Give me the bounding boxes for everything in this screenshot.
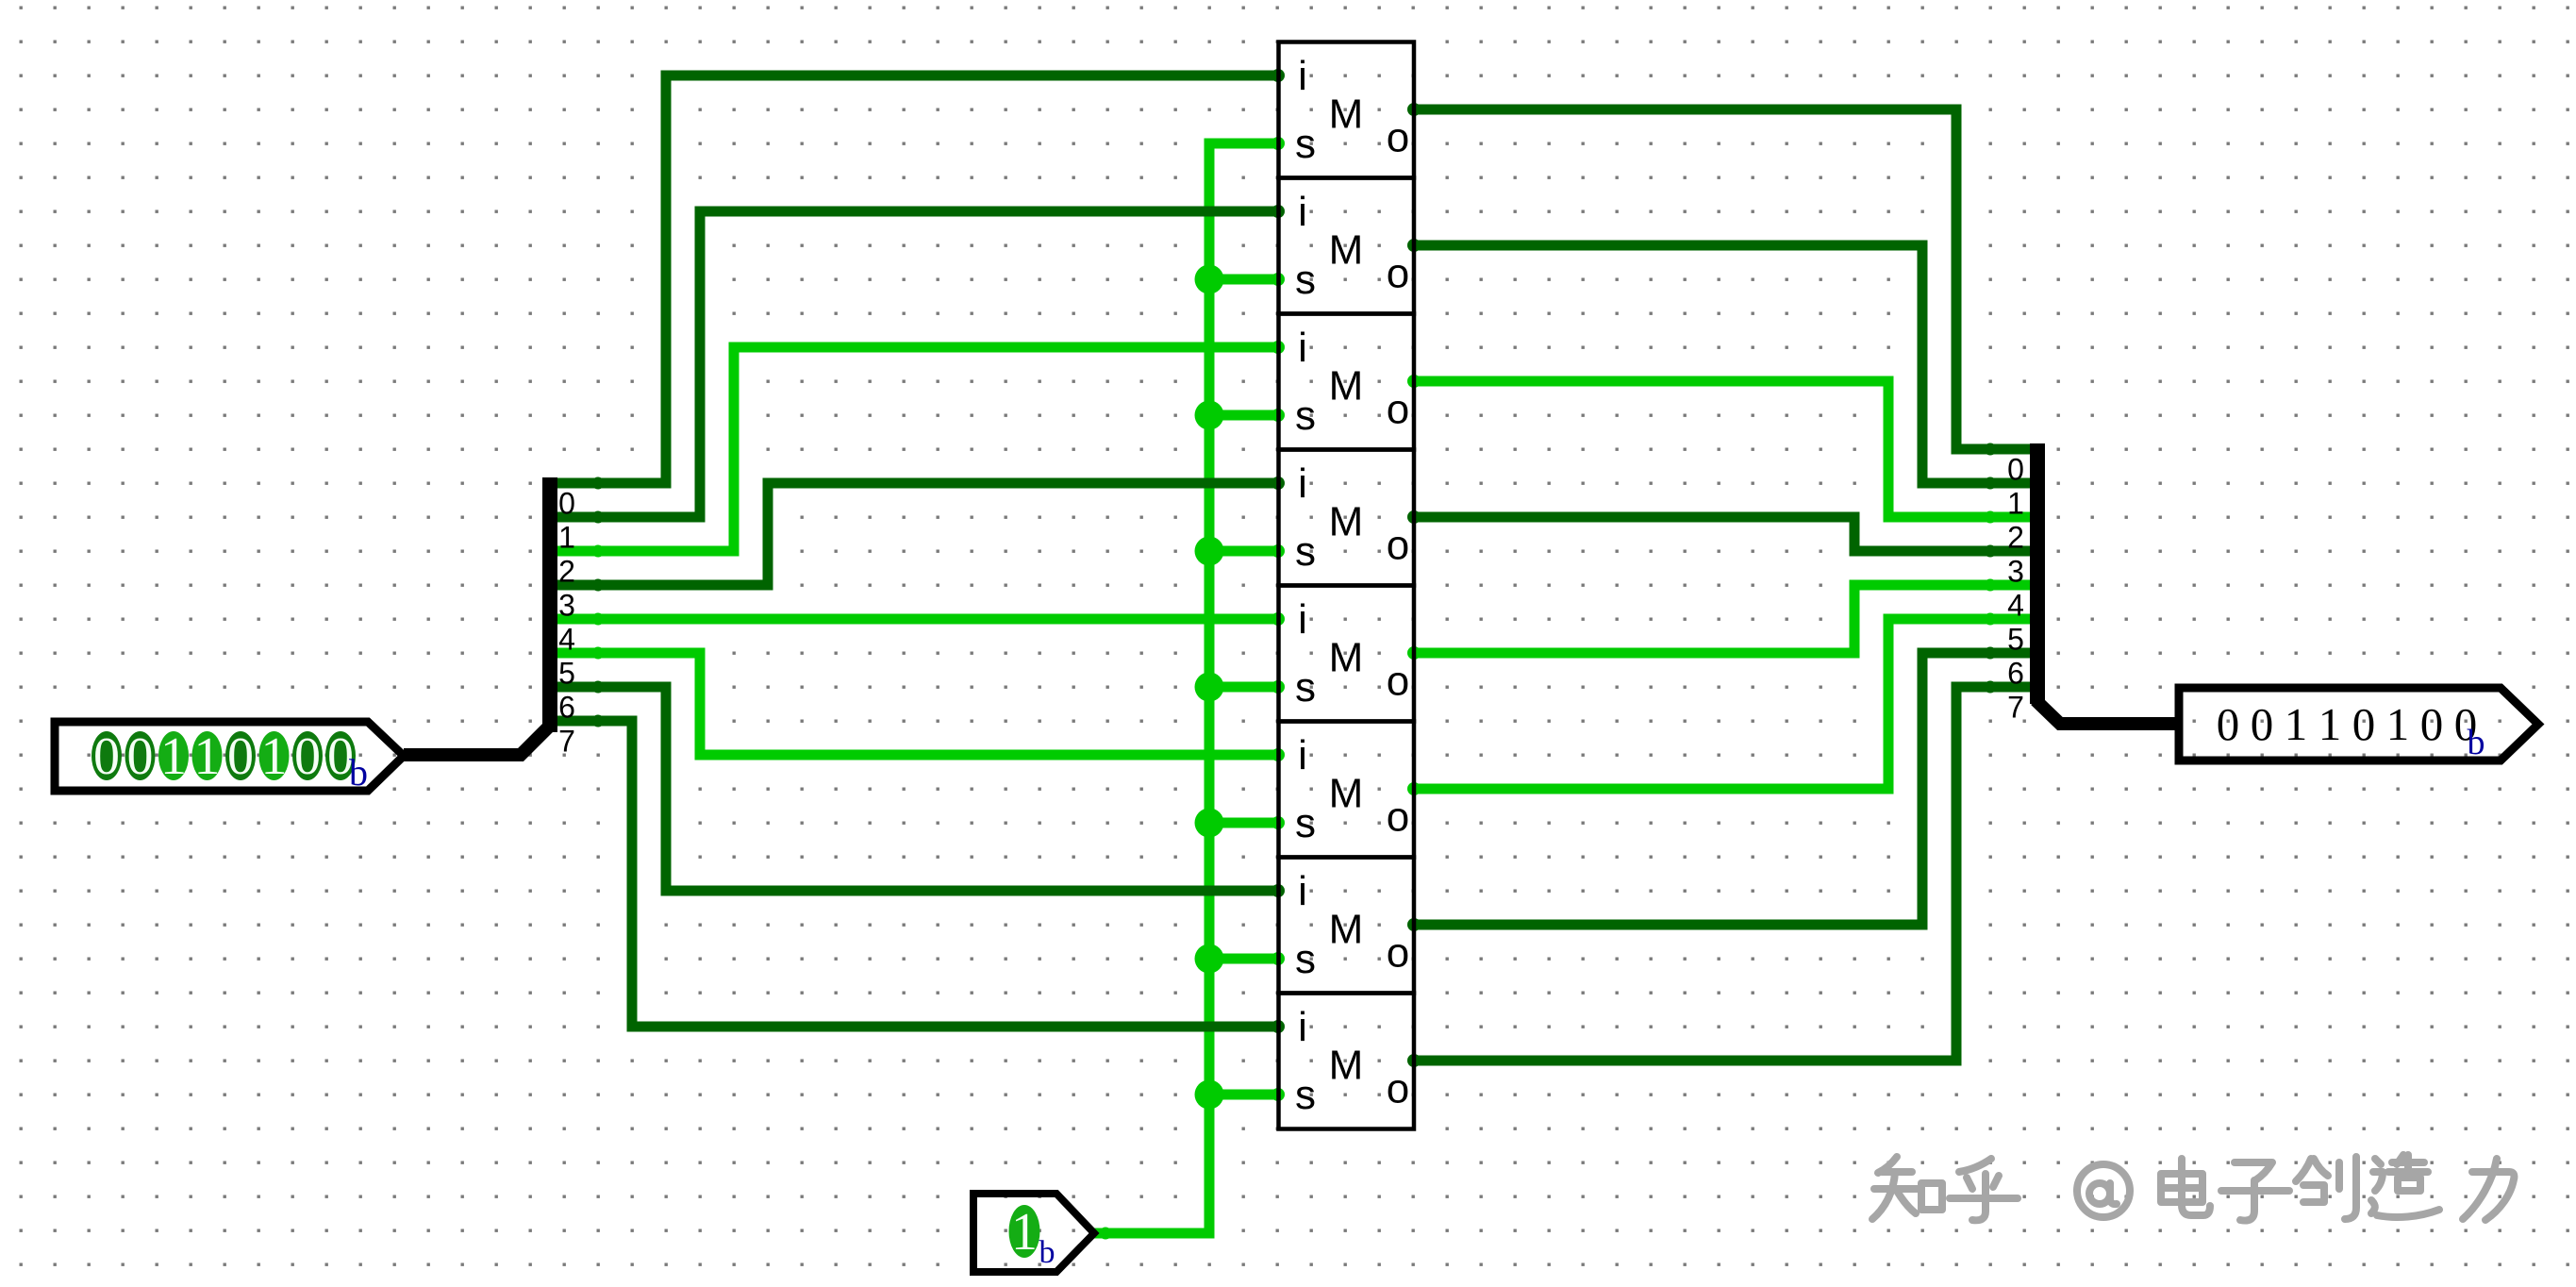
svg-text:s: s — [1295, 528, 1316, 575]
svg-text:3: 3 — [558, 589, 575, 623]
svg-text:s: s — [1295, 800, 1316, 846]
svg-text:1: 1 — [1011, 1203, 1038, 1262]
svg-text:6: 6 — [558, 691, 575, 725]
svg-text:o: o — [1387, 251, 1409, 297]
svg-text:o: o — [1387, 930, 1409, 977]
svg-text:s: s — [1295, 664, 1316, 710]
svg-text:M: M — [1329, 635, 1364, 681]
svg-text:o: o — [1387, 1066, 1409, 1112]
svg-text:s: s — [1295, 257, 1316, 303]
svg-text:M: M — [1329, 363, 1364, 409]
svg-text:0: 0 — [93, 727, 120, 786]
svg-text:1: 1 — [261, 727, 288, 786]
svg-text:i: i — [1298, 1004, 1307, 1050]
svg-text:M: M — [1329, 907, 1364, 953]
svg-text:0: 0 — [127, 727, 154, 786]
svg-text:1: 1 — [160, 727, 187, 786]
svg-text:i: i — [1298, 596, 1307, 643]
svg-text:b: b — [2468, 723, 2485, 762]
svg-text:b: b — [1039, 1235, 1055, 1270]
svg-text:b: b — [349, 751, 368, 794]
svg-text:o: o — [1387, 523, 1409, 569]
svg-text:o: o — [1387, 115, 1409, 161]
svg-text:0: 0 — [2352, 698, 2376, 750]
svg-text:4: 4 — [2007, 589, 2024, 623]
svg-text:1: 1 — [2386, 698, 2410, 750]
svg-text:5: 5 — [558, 657, 575, 691]
svg-text:1: 1 — [2318, 698, 2342, 750]
svg-text:3: 3 — [2007, 555, 2024, 589]
svg-text:7: 7 — [2007, 691, 2024, 725]
svg-text:s: s — [1295, 121, 1316, 167]
svg-text:M: M — [1329, 771, 1364, 817]
svg-text:0: 0 — [2007, 453, 2024, 487]
svg-text:6: 6 — [2007, 657, 2024, 691]
svg-text:0: 0 — [558, 487, 575, 521]
svg-text:5: 5 — [2007, 623, 2024, 657]
svg-text:o: o — [1387, 659, 1409, 705]
svg-text:M: M — [1329, 227, 1364, 274]
svg-text:1: 1 — [2285, 698, 2308, 750]
svg-text:s: s — [1295, 936, 1316, 982]
svg-text:M: M — [1329, 499, 1364, 545]
svg-text:0: 0 — [227, 727, 254, 786]
svg-text:i: i — [1298, 732, 1307, 778]
svg-text:i: i — [1298, 53, 1307, 99]
svg-text:o: o — [1387, 387, 1409, 433]
svg-text:1: 1 — [194, 727, 221, 786]
svg-text:7: 7 — [558, 725, 575, 759]
svg-text:M: M — [1329, 1043, 1364, 1089]
svg-text:2: 2 — [558, 555, 575, 589]
svg-text:i: i — [1298, 460, 1307, 507]
svg-text:s: s — [1295, 1072, 1316, 1118]
svg-text:0: 0 — [2420, 698, 2444, 750]
svg-text:0: 0 — [294, 727, 321, 786]
svg-text:s: s — [1295, 393, 1316, 439]
svg-text:i: i — [1298, 868, 1307, 914]
svg-text:M: M — [1329, 92, 1364, 138]
svg-text:0: 0 — [2217, 698, 2240, 750]
svg-text:o: o — [1387, 794, 1409, 841]
svg-text:4: 4 — [558, 623, 575, 657]
svg-text:2: 2 — [2007, 521, 2024, 555]
svg-text:1: 1 — [2007, 487, 2024, 521]
svg-text:1: 1 — [558, 521, 575, 555]
svg-text:i: i — [1298, 325, 1307, 371]
svg-text:i: i — [1298, 189, 1307, 235]
svg-text:0: 0 — [2251, 698, 2274, 750]
